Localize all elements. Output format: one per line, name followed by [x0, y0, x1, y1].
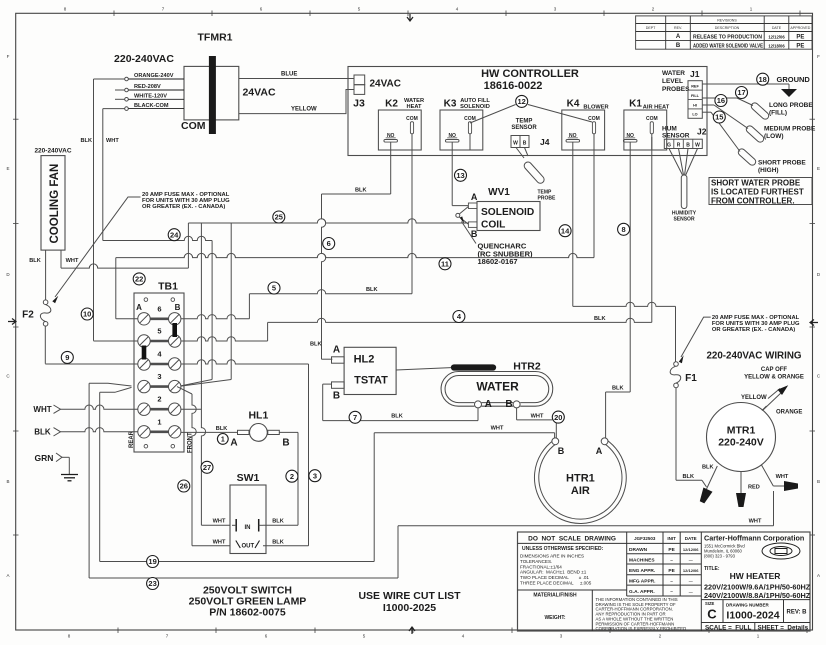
svg-text:OUT: OUT	[241, 544, 254, 550]
svg-text:OR GREATER (EX. - CANADA): OR GREATER (EX. - CANADA)	[142, 204, 225, 210]
svg-text:BLK: BLK	[391, 414, 403, 420]
svg-text:PE: PE	[796, 44, 804, 50]
svg-text:240V/2100W/8.8A/1PH/50-60HZ: 240V/2100W/8.8A/1PH/50-60HZ	[704, 591, 811, 600]
svg-text:C: C	[707, 607, 717, 622]
svg-text:TFMR1: TFMR1	[198, 32, 233, 44]
relay K1	[624, 110, 667, 150]
svg-text:–: –	[670, 590, 673, 595]
svg-text:24: 24	[170, 230, 179, 239]
wire TB1 row4 B to switch OUT riser (wire 3)	[181, 360, 309, 364]
wire F1 to BLK lead	[675, 388, 677, 481]
svg-text:6: 6	[157, 304, 161, 313]
svg-text:25: 25	[275, 213, 283, 222]
thermostat HL2 TSTAT	[344, 347, 396, 394]
svg-text:ORANGE: ORANGE	[776, 410, 802, 416]
svg-text:COIL: COIL	[481, 220, 505, 231]
svg-text:FROM CONTROLLER.: FROM CONTROLLER.	[711, 197, 795, 206]
quencharc RC snubber leader	[462, 222, 477, 244]
svg-text:REV: B: REV: B	[786, 610, 807, 616]
svg-text:BLK: BLK	[81, 138, 93, 144]
svg-text:SENSOR: SENSOR	[662, 133, 690, 140]
TB1 jumper row5A-row4A	[142, 346, 147, 360]
wire TB1 row2 B to switch IN riser	[181, 408, 201, 410]
svg-text:K2: K2	[385, 99, 398, 110]
svg-text:BLK: BLK	[29, 258, 41, 264]
svg-text:6: 6	[327, 239, 331, 248]
svg-text:BLK: BLK	[272, 519, 284, 525]
wire BLACK-COM to WHT drop	[103, 108, 125, 110]
svg-text:MEDIUM PROBE: MEDIUM PROBE	[764, 126, 816, 133]
svg-text:ORANGE-240V: ORANGE-240V	[134, 73, 174, 79]
svg-text:WHT: WHT	[213, 539, 226, 545]
medium probe (LOW)	[745, 124, 765, 143]
HTR2 terminal B	[513, 401, 520, 408]
wire 25 neutral to WV1 B	[188, 219, 468, 223]
svg-text:Carter-Hoffmann Corporation: Carter-Hoffmann Corporation	[704, 534, 804, 543]
wire WHT drop (BLACK-COM neutral) = wire 24	[102, 109, 104, 241]
svg-text:REVISIONS: REVISIONS	[717, 19, 737, 23]
svg-text:WHT: WHT	[33, 405, 51, 414]
svg-text:F1: F1	[685, 373, 697, 384]
svg-text:FILL: FILL	[691, 94, 700, 98]
motor WHT lead	[762, 465, 774, 486]
wire YELLOW 24VAC	[239, 90, 354, 114]
relay K3	[440, 110, 483, 150]
svg-text:LO: LO	[692, 113, 697, 117]
svg-text:BLK: BLK	[366, 287, 378, 293]
svg-text:TITLE:: TITLE:	[704, 566, 720, 572]
HW controller box 18616-0022	[348, 67, 707, 156]
svg-text:F2: F2	[22, 310, 34, 321]
svg-text:AIR: AIR	[571, 485, 590, 497]
svg-text:BLOWER: BLOWER	[583, 105, 608, 111]
revision table	[636, 16, 812, 49]
svg-text:DO NOT SCALE DRAWING: DO NOT SCALE DRAWING	[528, 536, 616, 543]
svg-text:W: W	[513, 141, 518, 147]
svg-text:BLK: BLK	[355, 188, 367, 194]
svg-text:220-240V: 220-240V	[718, 437, 764, 449]
long probe (FILL)	[750, 101, 770, 120]
svg-text:ADDED WATER SOLENOID VALVE: ADDED WATER SOLENOID VALVE	[693, 43, 763, 49]
TB1 terminal row 2	[151, 408, 169, 411]
svg-text:BLK: BLK	[216, 426, 228, 432]
svg-text:—: —	[689, 557, 693, 562]
wire fan WHT / neutral bus to K4 COM	[60, 250, 62, 268]
wire FILL to long probe	[702, 97, 737, 99]
svg-text:WHT: WHT	[531, 414, 544, 420]
svg-text:B: B	[558, 446, 565, 456]
svg-text:MATERIAL/FINISH: MATERIAL/FINISH	[533, 593, 577, 599]
connector J3	[354, 75, 365, 85]
svg-text:SCALE = FULL: SCALE = FULL	[705, 624, 752, 631]
svg-text:BLK: BLK	[683, 474, 695, 480]
svg-text:(FILL): (FILL)	[769, 110, 787, 117]
svg-text:5: 5	[157, 327, 161, 336]
svg-text:WHT: WHT	[213, 519, 226, 525]
svg-text:7: 7	[353, 413, 357, 422]
leader to F2	[55, 197, 141, 297]
svg-text:WHT: WHT	[66, 258, 79, 264]
wire TB1 row6 B to wire5 riser	[181, 315, 249, 319]
svg-text:DESCRIPTION: DESCRIPTION	[715, 26, 740, 30]
heater HTR1 air element	[534, 439, 626, 523]
svg-text:20: 20	[554, 413, 562, 422]
svg-text:12/18/06: 12/18/06	[768, 43, 785, 48]
relay K2	[378, 110, 421, 150]
svg-text:18602-0167: 18602-0167	[478, 257, 518, 266]
svg-text:HUM: HUM	[662, 126, 677, 133]
svg-text:K4: K4	[567, 99, 580, 110]
svg-text:RED: RED	[748, 485, 760, 491]
svg-text:WEIGHT:: WEIGHT:	[544, 615, 565, 621]
svg-text:SHORT WATER PROBE: SHORT WATER PROBE	[711, 179, 801, 188]
svg-text:I1000-2025: I1000-2025	[383, 602, 436, 614]
wire BLUE 24VAC	[239, 78, 354, 80]
wire TSTAT to element	[396, 368, 451, 370]
svg-text:TB1: TB1	[158, 281, 178, 293]
HTR2 terminal A	[475, 401, 482, 408]
svg-text:INIT: INIT	[667, 536, 676, 541]
ground symbol	[781, 89, 797, 97]
wire 4 TB1 row5 B to K1 COM	[651, 137, 653, 322]
svg-text:REF: REF	[691, 85, 699, 89]
svg-text:SOLENOID: SOLENOID	[481, 207, 534, 218]
svg-text:2: 2	[157, 395, 161, 404]
relay K4	[562, 110, 605, 150]
fuse F2	[43, 300, 48, 305]
svg-text:SHEET = Details: SHEET = Details	[758, 624, 809, 631]
svg-text:8: 8	[622, 225, 626, 234]
svg-text:B: B	[282, 438, 289, 449]
svg-text:220-240VAC: 220-240VAC	[114, 53, 174, 65]
svg-text:B: B	[686, 142, 690, 148]
svg-text:5: 5	[272, 284, 276, 293]
svg-text:A: A	[230, 438, 237, 449]
svg-text:27: 27	[203, 463, 211, 472]
svg-text:SENSOR: SENSOR	[673, 217, 695, 223]
svg-text:IS LOCATED FURTHEST: IS LOCATED FURTHEST	[711, 188, 804, 197]
Carter-Hoffmann logo	[762, 543, 800, 559]
svg-text:F: F	[817, 54, 820, 59]
svg-text:16: 16	[717, 96, 725, 105]
wire 6 K2 NO to HL2 A	[390, 150, 392, 194]
short probe (HIGH)	[737, 147, 757, 166]
svg-text:1: 1	[221, 436, 225, 443]
svg-text:18: 18	[759, 75, 767, 84]
wire 19 to HTR1 B	[100, 561, 375, 563]
svg-text:24VAC: 24VAC	[370, 79, 402, 90]
wire 13 / K3 NO to WV1 A	[451, 150, 453, 206]
wire ORANGE tap to BLK drop	[94, 78, 125, 80]
svg-text:A: A	[817, 573, 820, 578]
wire 20 HTR2 B to HTR1 B	[516, 408, 518, 420]
svg-text:(800) 323 - 9793: (800) 323 - 9793	[704, 554, 736, 559]
svg-text:WATER: WATER	[662, 70, 685, 77]
svg-text:BLK: BLK	[34, 428, 51, 437]
svg-text:A: A	[6, 573, 9, 578]
wire 5 TB1 row6 B to K2 COM	[411, 137, 413, 294]
svg-text:(LOW): (LOW)	[764, 133, 784, 140]
svg-text:COM: COM	[181, 120, 206, 132]
wire 14 K4 NO to fuse F1	[572, 150, 574, 306]
svg-text:F: F	[7, 54, 10, 59]
cap off arrow	[768, 389, 780, 399]
svg-text:LONG PROBE: LONG PROBE	[769, 102, 813, 109]
svg-text:PE: PE	[668, 547, 675, 553]
svg-text:DATE: DATE	[772, 26, 782, 30]
node ORANGE-240V tap	[125, 73, 184, 110]
svg-text:24VAC: 24VAC	[242, 87, 275, 99]
svg-text:WHT: WHT	[491, 426, 504, 432]
svg-text:BLACK-COM: BLACK-COM	[134, 103, 169, 109]
svg-text:WV1: WV1	[488, 187, 510, 198]
svg-text:SHORT PROBE: SHORT PROBE	[758, 160, 806, 167]
transformer core bar	[209, 56, 216, 134]
wire 24 drop joins TB1 row3 fan	[177, 380, 212, 387]
svg-text:DRAWING NUMBER: DRAWING NUMBER	[726, 603, 769, 608]
svg-text:GRN: GRN	[35, 453, 54, 463]
note: short water probe located furthest	[709, 178, 812, 205]
svg-text:HL1: HL1	[248, 409, 268, 421]
svg-text:ANGULAR: MACH±1 BEND ±1: ANGULAR: MACH±1 BEND ±1	[520, 570, 587, 575]
svg-text:G.A. APPR.: G.A. APPR.	[629, 589, 655, 595]
wire SW1 IN WHT	[201, 524, 230, 526]
svg-text:HTR2: HTR2	[513, 361, 541, 373]
svg-text:YELLOW & ORANGE: YELLOW & ORANGE	[744, 375, 804, 381]
svg-text:SW1: SW1	[237, 472, 260, 484]
svg-text:220-240VAC: 220-240VAC	[34, 148, 71, 155]
svg-text:DEPT: DEPT	[646, 26, 656, 30]
svg-text:WATER: WATER	[476, 380, 519, 394]
svg-text:–: –	[670, 579, 673, 584]
svg-text:J4: J4	[540, 137, 550, 147]
svg-text:TSTAT: TSTAT	[354, 375, 388, 387]
wire SW1 OUT WHT	[177, 387, 192, 394]
wire HI to medium probe	[702, 104, 714, 106]
wire 12 K3 COM to K4 COM	[470, 105, 516, 124]
svg-text:MFG APPR.: MFG APPR.	[629, 578, 655, 584]
svg-text:—: —	[689, 578, 693, 583]
svg-text:B: B	[676, 43, 681, 49]
motor MTR1	[707, 403, 776, 472]
svg-text:12/12/06: 12/12/06	[683, 547, 699, 552]
wire WHITE tap stub	[115, 98, 125, 100]
svg-text:P/N 18602-0075: P/N 18602-0075	[209, 607, 286, 619]
svg-text:YELLOW: YELLOW	[741, 395, 767, 401]
wire 9 F2 to TB1 row4 A	[44, 326, 46, 364]
svg-text:—: —	[689, 589, 693, 594]
svg-text:REV.: REV.	[674, 26, 682, 30]
humidity sensor	[669, 149, 683, 176]
svg-text:UNLESS OTHERWISE SPECIFIED:: UNLESS OTHERWISE SPECIFIED:	[522, 546, 604, 552]
svg-text:SIZE: SIZE	[705, 601, 715, 606]
TB1 terminal row 4	[151, 363, 169, 366]
wire 8 K1 NO to HTR1 A	[629, 150, 631, 392]
svg-text:PE: PE	[668, 568, 675, 574]
svg-text:HEAT: HEAT	[406, 104, 422, 110]
svg-text:WHT: WHT	[106, 138, 119, 144]
svg-text:BLK: BLK	[612, 386, 624, 392]
wire 10 marker (ORANGE feed to TB1 row5 A)	[81, 308, 93, 320]
svg-text:LEVEL: LEVEL	[662, 78, 683, 85]
svg-text:COOLING FAN: COOLING FAN	[49, 164, 61, 244]
svg-text:J2: J2	[697, 127, 707, 137]
wire 3 to SW1 OUT	[263, 545, 309, 547]
wire RED tap stub	[115, 89, 125, 91]
svg-text:12/12/06: 12/12/06	[768, 34, 785, 39]
wire fan BLK to F2	[45, 250, 47, 300]
svg-text:B: B	[817, 479, 820, 484]
svg-text:BLK: BLK	[594, 316, 606, 322]
TB1 terminal row 3	[151, 385, 169, 388]
svg-text:3: 3	[157, 372, 161, 381]
svg-text:A: A	[471, 192, 478, 202]
svg-text:THREE PLACE DECIMAL ±.005: THREE PLACE DECIMAL ±.005	[520, 581, 592, 586]
TB1 jumper row6B-row5B	[172, 323, 177, 337]
svg-text:11: 11	[441, 260, 449, 269]
svg-text:12/12/06: 12/12/06	[683, 568, 699, 573]
svg-text:R: R	[677, 142, 681, 148]
wire REF to ground	[702, 83, 789, 85]
svg-text:PROBES: PROBES	[662, 86, 690, 93]
svg-text:3: 3	[313, 471, 317, 480]
svg-text:K3: K3	[444, 99, 457, 110]
svg-text:A: A	[485, 399, 492, 410]
svg-text:A: A	[596, 446, 603, 456]
svg-text:G: G	[667, 142, 671, 148]
TB1 terminal row 5	[151, 340, 169, 343]
svg-text:WHITE-120V: WHITE-120V	[134, 94, 167, 100]
svg-text:CORPORATION IS EXPRESSLY PROHI: CORPORATION IS EXPRESSLY PROHIBITED	[596, 626, 687, 631]
SW1 IN contacts	[235, 519, 237, 532]
svg-text:HW HEATER: HW HEATER	[730, 571, 781, 581]
svg-text:HW CONTROLLER: HW CONTROLLER	[481, 68, 579, 80]
svg-text:1: 1	[157, 417, 161, 426]
wire 23 to MTR1 WHT	[89, 577, 398, 579]
svg-text:HTR1: HTR1	[566, 473, 595, 485]
svg-text:18616-0022: 18616-0022	[484, 80, 543, 92]
svg-text:RED-208V: RED-208V	[134, 84, 161, 90]
svg-text:BLK: BLK	[310, 342, 322, 348]
svg-text:(HIGH): (HIGH)	[758, 167, 779, 174]
svg-text:B: B	[175, 303, 181, 312]
motor RED lead	[740, 472, 742, 494]
TB1 terminal row 1	[151, 430, 169, 433]
svg-text:10: 10	[83, 310, 91, 319]
svg-text:OR GREATER (EX. - CANADA): OR GREATER (EX. - CANADA)	[712, 327, 795, 333]
svg-text:FRONT: FRONT	[188, 432, 194, 453]
svg-text:9: 9	[65, 353, 69, 362]
svg-text:FRACTIONAL:±1/64: FRACTIONAL:±1/64	[520, 564, 562, 569]
svg-text:J1: J1	[690, 69, 700, 79]
svg-text:GROUND: GROUND	[777, 75, 811, 84]
svg-text:B: B	[6, 479, 9, 484]
svg-text:USE WIRE CUT LIST: USE WIRE CUT LIST	[358, 590, 461, 602]
svg-text:–: –	[670, 558, 673, 563]
svg-text:220-240VAC WIRING: 220-240VAC WIRING	[706, 350, 801, 361]
svg-text:K1: K1	[629, 99, 642, 110]
wire TB1 row1 B to lamp HL1	[181, 431, 238, 433]
temp probe	[516, 148, 524, 159]
svg-text:DIMENSIONS ARE IN INCHES: DIMENSIONS ARE IN INCHES	[520, 554, 584, 559]
svg-text:PROBE: PROBE	[538, 196, 556, 202]
wire 3 riser row4 to SW1 OUT BLK	[308, 364, 310, 546]
HTR1 terminal A	[601, 438, 608, 445]
svg-text:E: E	[6, 166, 9, 171]
svg-text:DATE: DATE	[685, 536, 697, 541]
svg-text:23: 23	[148, 579, 156, 588]
svg-text:26: 26	[180, 482, 188, 491]
svg-text:BLUE: BLUE	[281, 72, 297, 78]
quencharc junction node	[456, 213, 460, 217]
svg-text:I1000-2024: I1000-2024	[726, 610, 779, 622]
svg-text:JGF32503: JGF32503	[634, 536, 656, 541]
wire TB1 row5 B to wire4 riser	[181, 337, 268, 341]
svg-text:15: 15	[715, 113, 723, 122]
svg-text:MTR1: MTR1	[727, 425, 756, 437]
svg-text:J3: J3	[353, 98, 365, 110]
svg-text:WHT: WHT	[776, 474, 789, 480]
wire 23 riser to TB1 row3 A	[88, 383, 90, 578]
svg-text:12: 12	[518, 97, 526, 106]
svg-text:WHT: WHT	[749, 519, 762, 525]
svg-text:HI: HI	[693, 103, 697, 107]
svg-text:E: E	[817, 166, 820, 171]
TB1 terminal row 6	[151, 317, 169, 320]
svg-text:ENG APPR.: ENG APPR.	[629, 568, 655, 574]
fuse F1	[674, 362, 679, 367]
svg-text:SENSOR: SENSOR	[511, 125, 537, 131]
svg-text:REAR: REAR	[129, 430, 135, 448]
svg-text:B: B	[523, 141, 527, 147]
svg-text:13: 13	[456, 171, 464, 180]
wire 7 TSTAT B to HTR2 A	[323, 383, 332, 385]
svg-text:14: 14	[561, 226, 570, 235]
svg-text:TEMP: TEMP	[516, 119, 533, 125]
motor BLK lead	[707, 466, 718, 489]
title block	[518, 532, 811, 631]
HTR2 element bar	[454, 364, 493, 370]
svg-text:B: B	[333, 391, 340, 402]
wire 2 HL1 B to SW1 IN	[279, 431, 298, 433]
svg-text:TWO PLACE DECIMAL ± .01: TWO PLACE DECIMAL ± .01	[520, 575, 589, 580]
wire 19 riser to TB1 row3 A	[99, 392, 101, 561]
svg-text:22: 22	[135, 275, 143, 284]
svg-text:W: W	[695, 142, 700, 148]
svg-text:BLK: BLK	[272, 539, 284, 545]
svg-text:PE: PE	[796, 35, 804, 41]
SW1 OUT contacts	[236, 541, 260, 549]
svg-text:IN: IN	[245, 525, 251, 531]
wire LO to short probe	[702, 111, 711, 113]
svg-text:A: A	[333, 345, 340, 356]
svg-text:HL2: HL2	[354, 354, 375, 366]
svg-text:SOLENOID: SOLENOID	[460, 104, 490, 110]
svg-text:YELLOW: YELLOW	[291, 107, 317, 113]
svg-text:A: A	[676, 34, 681, 40]
svg-text:TOLERANCES.: TOLERANCES.	[520, 559, 552, 564]
svg-text:19: 19	[148, 557, 156, 566]
svg-text:CAP OFF: CAP OFF	[761, 367, 788, 373]
HTR1 terminal B	[552, 438, 559, 445]
svg-text:MACHINES: MACHINES	[629, 557, 655, 563]
svg-text:17: 17	[737, 88, 745, 97]
svg-text:BLK: BLK	[702, 465, 714, 471]
svg-text:RELEASE TO PRODUCTION: RELEASE TO PRODUCTION	[693, 34, 762, 40]
svg-text:AIR HEAT: AIR HEAT	[643, 105, 670, 111]
leader to F1	[681, 317, 711, 357]
svg-text:2: 2	[290, 472, 294, 481]
